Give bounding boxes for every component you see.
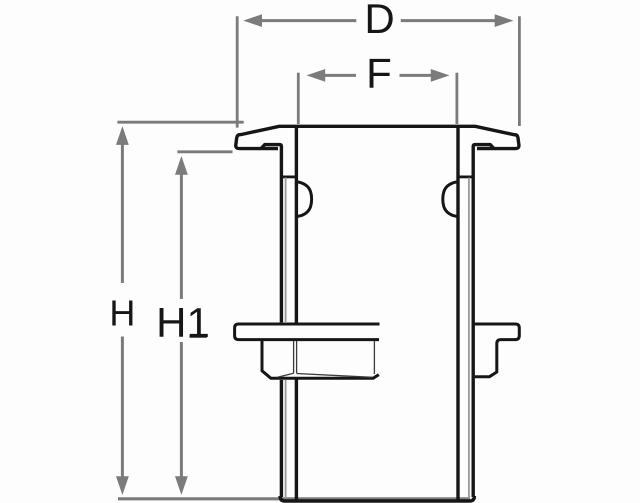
svg-text:D: D <box>364 0 394 42</box>
svg-text:H: H <box>109 292 135 333</box>
svg-text:H1: H1 <box>156 299 210 346</box>
svg-text:F: F <box>366 50 392 97</box>
